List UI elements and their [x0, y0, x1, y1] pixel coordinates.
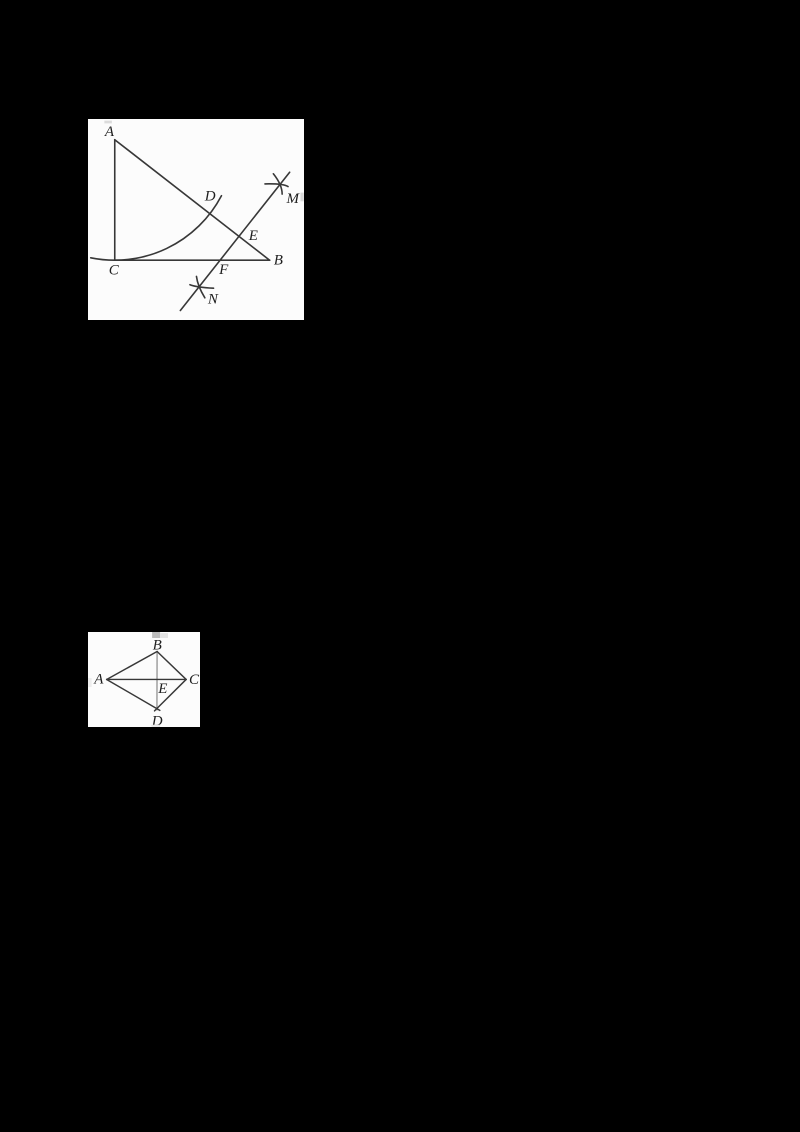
wire side CB (horizontal leg) [115, 259, 270, 261]
scan artifact gray mark right of M [300, 193, 303, 202]
svg-text:F: F [218, 262, 229, 278]
svg-text:C: C [109, 262, 120, 278]
wire side CD extended past D [155, 679, 187, 710]
tick arc 1 at M [273, 174, 282, 194]
scan artifact faint mark left edge near A [88, 678, 92, 687]
wire bisector line N-F-E-M [180, 172, 289, 310]
arc centered at A through C and D [91, 196, 222, 261]
wire side BC [157, 651, 186, 679]
svg-text:B: B [153, 637, 162, 653]
svg-text:C: C [189, 672, 200, 688]
scan artifact gray mark above A [104, 121, 112, 124]
scan artifact faint mark below D [152, 724, 161, 726]
svg-text:D: D [204, 189, 216, 205]
wire side AB (hypotenuse) [115, 140, 270, 261]
wire side AB [107, 651, 157, 679]
panel 1: right-triangle angle-bisector construction figure [88, 119, 304, 320]
tick arc 2 at N [190, 285, 214, 289]
scan artifact dark gray mark top [152, 632, 160, 638]
wire side AC (vertical leg) [114, 140, 116, 261]
tick arc 2 at M [265, 184, 288, 187]
scan artifact light gray mark top [160, 633, 168, 638]
svg-text:N: N [207, 292, 219, 308]
svg-text:M: M [285, 191, 300, 207]
tick arc 1 at N [196, 276, 204, 297]
svg-text:E: E [248, 228, 258, 244]
svg-text:A: A [93, 671, 104, 687]
diagonal BD (gray) [156, 651, 158, 709]
diagonal AC [107, 678, 186, 680]
svg-text:E: E [157, 681, 167, 697]
wire side AD extended past D [107, 679, 160, 710]
svg-text:A: A [104, 124, 115, 140]
svg-text:B: B [274, 253, 283, 269]
panel 2: kite ABCD with diagonals figure [88, 632, 200, 727]
